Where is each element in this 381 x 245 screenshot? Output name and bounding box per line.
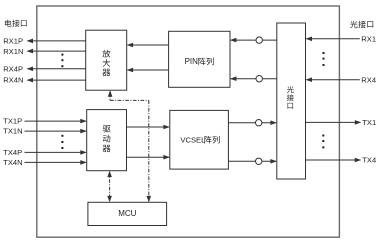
module outline (transceiver boundary) <box>37 6 340 237</box>
svg-text:RX1N: RX1N <box>3 47 23 56</box>
wire PIN array to amplifier ch1 <box>127 43 169 48</box>
label 电接口 (electrical interface) <box>5 20 27 27</box>
ellipsis dots TX electrical side <box>61 135 63 149</box>
wire TX4N driver input <box>25 160 87 165</box>
ellipsis dots RX electrical side <box>61 54 63 68</box>
label RX1 <box>361 34 376 43</box>
svg-text:TX1P: TX1P <box>3 117 22 126</box>
label TX1P <box>3 117 22 126</box>
label RX4N <box>3 76 23 85</box>
amplifier block 放大器 <box>86 30 127 90</box>
wire driver to VCSEL array ch1 <box>127 125 170 130</box>
optical path lens L4 (VCSEL to optical interface, TX4) <box>228 158 276 164</box>
svg-text:RX1P: RX1P <box>3 37 23 46</box>
control wire MCU to amplifier (dash-dot) <box>108 90 151 202</box>
wire TX4P driver input <box>25 150 87 155</box>
label RX4P <box>3 65 23 74</box>
ellipsis dots TX fiber side <box>322 135 324 149</box>
svg-text:RX4P: RX4P <box>3 65 23 74</box>
svg-text:PIN: PIN <box>185 57 199 66</box>
optical interface block 光接口 <box>277 23 306 179</box>
PIN array block PIN阵列 <box>169 31 230 87</box>
label TX1N <box>3 127 22 136</box>
svg-text:RX1: RX1 <box>361 34 376 43</box>
label TX4P <box>3 148 22 157</box>
driver block 驱动器 <box>87 110 127 171</box>
label RX4 <box>361 75 376 84</box>
wire RX4 fiber input <box>306 77 360 82</box>
svg-text:MCU: MCU <box>118 209 136 218</box>
optical path lens L1 (optical interface to PIN, RX1) <box>230 37 277 43</box>
optical path lens L3 (VCSEL to optical interface, TX1) <box>228 120 276 126</box>
ellipsis dots RX fiber side <box>323 52 325 66</box>
wire driver to VCSEL array ch4 <box>127 155 170 160</box>
svg-text:TX4P: TX4P <box>3 148 22 157</box>
wire TX1P driver input <box>25 119 87 124</box>
svg-text:TX4: TX4 <box>362 156 376 165</box>
svg-text:RX4: RX4 <box>361 75 376 84</box>
svg-text:RX4N: RX4N <box>3 76 23 85</box>
label RX1P <box>3 37 23 46</box>
optical path lens L2 (optical interface to PIN, RX4) <box>230 76 277 82</box>
wire RX1P amplifier output <box>27 39 86 44</box>
wire TX1N driver input <box>25 129 87 134</box>
svg-text:TX1N: TX1N <box>3 127 22 136</box>
wire PIN array to amplifier ch4 <box>127 68 169 73</box>
label TX1 <box>362 118 376 127</box>
VCSEL array block VCSEL阵列 <box>170 110 229 169</box>
control wire MCU to driver (dash-dot) <box>107 171 112 203</box>
svg-text:VCSEL: VCSEL <box>180 135 205 144</box>
MCU block <box>88 202 167 225</box>
label 光接口 (optical interface) <box>350 21 373 28</box>
wire RX4P amplifier output <box>27 67 86 72</box>
wire TX4 fiber output <box>306 158 362 163</box>
label RX1N <box>3 47 23 56</box>
label TX4N <box>3 158 22 167</box>
wire TX1 fiber output <box>306 120 362 125</box>
svg-text:TX4N: TX4N <box>3 158 22 167</box>
wire RX4N amplifier output <box>27 78 86 83</box>
svg-text:TX1: TX1 <box>362 118 376 127</box>
wire RX1N amplifier output <box>27 49 86 54</box>
wire RX1 fiber input <box>306 37 360 42</box>
label TX4 <box>362 156 376 165</box>
